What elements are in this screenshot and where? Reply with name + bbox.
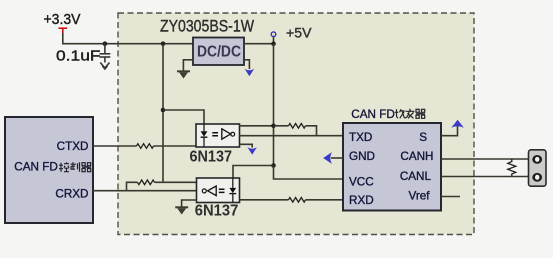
wire U1 output to TXD <box>240 135 344 137</box>
svg-text:Vref: Vref <box>408 189 430 202</box>
label 制 (controller title glyph 2) <box>71 162 80 172</box>
connector pin 1 <box>532 155 542 164</box>
power port +5V pin circle <box>271 32 276 37</box>
wire +3.3V down and right to rail <box>63 33 193 44</box>
ground (U1, blue open arrow) <box>247 147 257 155</box>
svg-text:+3.3V: +3.3V <box>44 12 81 28</box>
power port +3.3V bar symbol <box>59 28 68 34</box>
wire to opto U1 anode <box>163 110 204 124</box>
wire pull-up R to CRXD (left segments) <box>127 182 164 190</box>
svg-text:CRXD: CRXD <box>55 188 88 201</box>
wire DC/DC input ground pin <box>183 60 193 71</box>
connector J (bus header) <box>529 150 547 186</box>
junction U1 Vcc/+5V <box>271 124 276 129</box>
wire CANL <box>441 176 528 178</box>
U2 LED <box>232 178 234 188</box>
wire U1 Vcc to +5V <box>240 125 274 127</box>
module outline (dashed box ZY0305BS-1W) <box>118 13 474 235</box>
CAN FD transceiver box <box>343 123 441 211</box>
wire pull-up R TXD (segments) <box>274 126 317 136</box>
svg-text:+5V: +5V <box>286 25 312 41</box>
connector pin 2 <box>532 173 542 182</box>
ground (DC/DC input side, solid arrow) <box>177 70 190 78</box>
svg-text:CAN FD: CAN FD <box>351 108 395 121</box>
U2 output buffer (mirrored) <box>202 189 206 193</box>
optocoupler U2 6N137 (receive) <box>197 178 240 203</box>
junction at opto U1 anode branch <box>161 108 166 113</box>
wire U1 gnd pin <box>240 144 253 147</box>
svg-text:VCC: VCC <box>349 175 374 188</box>
svg-text:0.1uF: 0.1uF <box>56 48 101 65</box>
svg-text:6N137: 6N137 <box>190 149 233 166</box>
ground (U2, solid arrow) <box>175 206 188 214</box>
wire +5V pin stem <box>273 37 275 44</box>
wire U2 cathode to RXD resistor <box>240 199 344 201</box>
label 器 (controller title glyph 3) <box>82 163 91 172</box>
wire +5V vertical rail <box>273 44 275 166</box>
wire +5V to U2 anode <box>233 166 274 179</box>
wire DC/DC output to +5V rail <box>244 43 274 45</box>
svg-text:DC/DC: DC/DC <box>197 44 241 61</box>
power port S (blue up arrow) <box>451 120 464 128</box>
svg-text:CANH: CANH <box>400 150 433 163</box>
junction +5V rail <box>271 41 276 46</box>
label 收 (transceiver title glyph 1) <box>395 109 405 118</box>
U2 coupling dashes <box>219 189 225 192</box>
CAN FD controller box <box>5 117 93 223</box>
resistor R pull-up CRXD <box>137 180 154 185</box>
wire S pin to up arrow <box>441 126 458 136</box>
wire 3.3V vertical feed <box>162 44 164 183</box>
wire Vref stub <box>441 196 460 198</box>
resistor R termination (vertical) <box>508 159 516 177</box>
svg-text:GND: GND <box>349 150 375 163</box>
DC/DC converter module <box>193 38 244 66</box>
svg-text:CANL: CANL <box>400 170 432 183</box>
resistor R series CTXD <box>137 144 154 149</box>
wire DC/DC output ground pin <box>244 60 249 69</box>
optocoupler U1 6N137 (transmit) <box>196 124 240 147</box>
wire +5V to transceiver VCC <box>274 166 344 180</box>
svg-text:6N137: 6N137 <box>195 203 239 220</box>
wire CTXD net <box>93 145 196 147</box>
wire GND pin with blue arrow port <box>331 157 343 159</box>
U1 coupling dashes <box>212 133 218 136</box>
junction at capacitor tap <box>103 41 108 46</box>
U1 output buffer <box>222 129 231 139</box>
label 控 (controller title glyph 1) <box>59 162 69 172</box>
svg-text:RXD: RXD <box>349 194 374 207</box>
svg-text:TXD: TXD <box>349 131 372 144</box>
svg-text:CTXD: CTXD <box>57 140 89 153</box>
resistor R pull-up TXD <box>289 124 306 129</box>
svg-text:S: S <box>419 131 427 144</box>
junction at 3.3V rail / vertical feed <box>161 41 166 46</box>
ground (transceiver GND, blue left arrow) <box>323 152 332 164</box>
junction +5V to U2/transceiver <box>271 163 276 168</box>
capacitor C symbol <box>100 44 111 63</box>
wire CANH <box>441 158 528 160</box>
wire CRXD net <box>93 190 197 192</box>
U1 LED <box>203 124 205 131</box>
svg-text:CAN FD: CAN FD <box>14 161 58 174</box>
wire opto U2 Vcc from 3.3V <box>163 181 197 183</box>
svg-text:ZY0305BS-1W: ZY0305BS-1W <box>160 17 254 36</box>
ground (DC/DC output side, blue open arrow) <box>245 69 255 77</box>
ground (capacitor, arrow style) <box>100 63 109 70</box>
label 器 (transceiver title glyph 3) <box>416 109 425 118</box>
resistor R series RXD <box>289 198 306 203</box>
label 发 (transceiver title glyph 2) <box>405 109 414 119</box>
wire U2 gnd pin <box>182 200 197 207</box>
